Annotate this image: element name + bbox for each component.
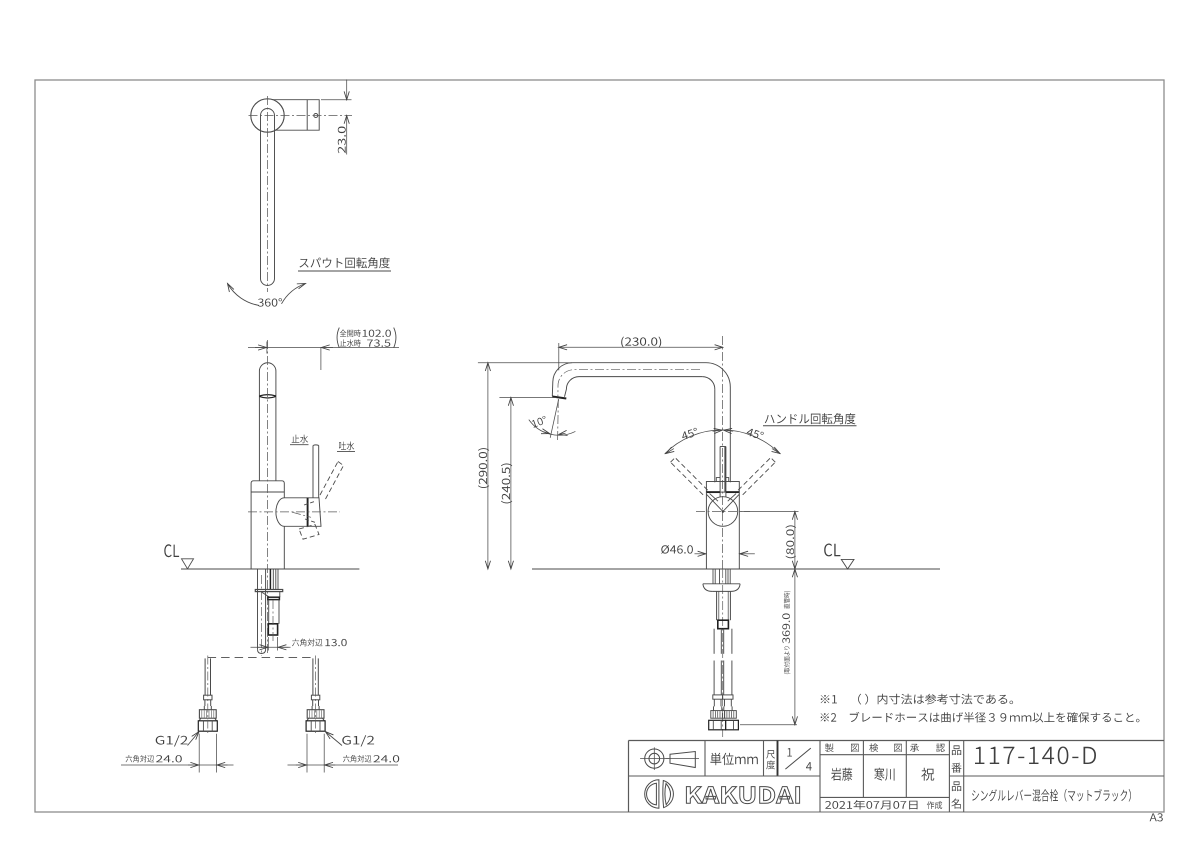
lever dashed right 2 bbox=[738, 458, 771, 491]
dim 290 line bbox=[487, 363, 489, 569]
front tube outer right bbox=[729, 591, 731, 620]
dim 240.5 text bbox=[501, 464, 512, 504]
front V line right bbox=[723, 494, 739, 511]
spout 360 rotation arc bbox=[228, 284, 260, 306]
dim hex24 right ext a bbox=[306, 734, 308, 773]
side collar seam bbox=[268, 597, 280, 599]
front rod flare right bbox=[726, 478, 729, 482]
front spout mouth bbox=[552, 397, 566, 399]
kakudai mark right bbox=[663, 781, 674, 808]
title scale 4 bbox=[806, 762, 812, 770]
top view horizontal centerline bbox=[249, 115, 353, 117]
dim 23.0 text bbox=[338, 127, 346, 154]
kakudai mark left bbox=[645, 780, 659, 808]
title block h 797.4 bbox=[820, 796, 949, 798]
projection symbol h crosshair bbox=[640, 758, 669, 760]
top view body circle bbox=[251, 99, 284, 132]
dim 369 text upper bbox=[784, 591, 791, 609]
front tube inner left bbox=[718, 591, 720, 620]
title block h 776 left bbox=[629, 775, 821, 777]
dim hex24 left arrow a bbox=[188, 764, 199, 766]
fan arrow far right bbox=[772, 449, 780, 454]
title name sangawa bbox=[874, 768, 894, 781]
side view lever rod left bbox=[312, 446, 314, 498]
title hinmei hin bbox=[952, 781, 961, 791]
title part number bbox=[975, 747, 1096, 765]
side flange bar bbox=[255, 590, 282, 592]
front hex left bbox=[709, 720, 726, 730]
front spout centerline bbox=[558, 370, 700, 397]
side view vertical centerline bbox=[267, 340, 269, 655]
dim 240.5 line bbox=[510, 398, 512, 570]
side shank lines bbox=[269, 569, 271, 590]
front nut bbox=[718, 620, 729, 629]
title date bbox=[825, 800, 917, 810]
hose route dashed line bbox=[208, 656, 315, 658]
dim 23.0 dimension line lower bbox=[346, 116, 348, 155]
dim 230 ext line bbox=[558, 343, 560, 370]
title name iwafuji bbox=[831, 768, 852, 781]
dim 80 line bbox=[794, 511, 796, 569]
title shonin bbox=[910, 744, 919, 752]
lever dashed left 1 bbox=[671, 462, 704, 495]
projection symbol cone axis bbox=[666, 758, 700, 760]
label 45 left bbox=[681, 427, 699, 440]
front body right line bbox=[738, 492, 740, 569]
title scale 1 bbox=[787, 748, 792, 756]
fan arrow center left bbox=[713, 430, 723, 431]
dim hex24 right text num bbox=[374, 755, 400, 762]
title block v 763.5 bbox=[763, 741, 765, 777]
side hose centerline bbox=[261, 575, 263, 656]
side view riser tube left bbox=[258, 371, 260, 481]
dim arrow right bbox=[321, 347, 333, 349]
side view lever rotated dashed 1 bbox=[320, 462, 338, 496]
label discharge underline bbox=[337, 451, 355, 453]
dim 80 text bbox=[786, 525, 796, 558]
side tube right bbox=[278, 600, 280, 624]
spout 360 rotation arc right bbox=[282, 284, 306, 304]
title seizu bbox=[825, 743, 834, 752]
label CL right bbox=[824, 544, 840, 557]
dim hex24 left line bbox=[121, 764, 234, 766]
dim 23.0 dimension line upper bbox=[346, 80, 348, 100]
side view collar bottom line bbox=[251, 491, 284, 493]
title kenzu2 bbox=[894, 744, 902, 752]
dim 230 text bbox=[621, 337, 661, 348]
title block v 963.7 bbox=[963, 741, 965, 813]
front cap rect bbox=[706, 482, 739, 493]
top view handle body rectangle bbox=[272, 100, 319, 131]
dim 10deg arrow left bbox=[543, 432, 550, 434]
dim 10deg arrow right bbox=[559, 433, 566, 434]
title seizu2 bbox=[851, 744, 859, 752]
dim hex13 ext left bbox=[267, 637, 269, 651]
side nut bbox=[268, 624, 277, 635]
front spout outer bend bbox=[706, 363, 730, 387]
dim 10deg text bbox=[531, 416, 547, 428]
dim 369 text lower bbox=[784, 646, 791, 674]
dim 369 ref line bbox=[740, 724, 797, 726]
side view lever rotated dashed 2 bbox=[326, 466, 344, 500]
top view spout tube bottom cap bbox=[261, 279, 275, 286]
dim extension line right bbox=[320, 348, 322, 371]
dim hex24 right arrow a bbox=[296, 764, 307, 766]
hose end fitting left bbox=[204, 658, 206, 695]
front spout tip outer bbox=[552, 363, 572, 397]
front spout bottom line bbox=[579, 376, 702, 378]
projection symbol outer circle bbox=[645, 749, 664, 768]
front hoses lower bbox=[713, 661, 715, 695]
front knurl right bbox=[725, 711, 737, 719]
front rod flare left bbox=[716, 478, 720, 482]
top view handle end cap line bbox=[306, 100, 308, 131]
front tube inner right bbox=[727, 591, 729, 620]
front tube outer left bbox=[716, 591, 718, 620]
front lever rod left bbox=[719, 447, 721, 498]
front spout tip inner bbox=[565, 377, 580, 397]
top view spout tube right line bbox=[274, 116, 276, 279]
title block top line bbox=[629, 740, 1165, 742]
lever dashed left 2 bbox=[675, 458, 708, 491]
front body left line bbox=[705, 492, 707, 569]
side view rotated cap dash a bbox=[304, 501, 316, 505]
front cap bottom thick bbox=[706, 491, 720, 493]
front shank lines bbox=[712, 569, 714, 584]
kakudai logotype bbox=[686, 787, 799, 804]
title hinban hin bbox=[952, 745, 961, 755]
dim big paren right bbox=[394, 328, 396, 348]
label discharge water bbox=[339, 442, 354, 451]
side view handle hub outline bbox=[276, 498, 321, 527]
top view vertical centerline bbox=[267, 96, 269, 292]
title block v 906.3 bbox=[905, 741, 907, 798]
front ball horizontal centerline bbox=[696, 511, 750, 513]
front riser left line bbox=[714, 389, 716, 482]
front hose necks bbox=[713, 699, 715, 706]
label G1/2 left bbox=[156, 735, 188, 746]
title product name bbox=[972, 789, 1131, 802]
side view riser top cap bbox=[259, 363, 276, 371]
sheet size A3 bbox=[1150, 813, 1163, 821]
front hose collars bbox=[713, 695, 723, 699]
dim hex24 right line bbox=[288, 764, 399, 766]
note 2 bbox=[821, 712, 1140, 723]
title block h 754.7 bbox=[820, 754, 949, 756]
title block v 705 bbox=[704, 741, 706, 777]
title scale slash bbox=[785, 748, 810, 769]
front flange bottom bbox=[712, 590, 731, 592]
title kenzu bbox=[869, 743, 878, 752]
title block h 776 right bbox=[949, 775, 1164, 777]
front chamfer left bbox=[710, 494, 718, 502]
side view body right lower bbox=[283, 526, 285, 569]
dim hex24 left ext a bbox=[198, 734, 200, 773]
dim hex13 text num bbox=[325, 639, 346, 646]
handle fan arc left bbox=[665, 430, 723, 454]
front spout inner bend bbox=[702, 377, 715, 390]
dim hex24 right text kanji bbox=[343, 755, 371, 762]
note 1 bbox=[821, 694, 1013, 705]
title date sakusei bbox=[927, 801, 942, 809]
fan arrow center right bbox=[724, 430, 734, 431]
title block v 863.4 bbox=[862, 741, 864, 798]
CL left triangle bbox=[182, 559, 194, 569]
front hex right bbox=[726, 720, 739, 730]
dim dia46 arrow left bbox=[695, 553, 706, 555]
side view lever rotated tip bbox=[338, 462, 344, 466]
projection symbol cone bbox=[670, 752, 695, 768]
dim arrow left bbox=[255, 347, 266, 349]
lever dashed left tip bbox=[671, 458, 676, 463]
side view body right upper bbox=[283, 492, 285, 498]
top view spout tube left line bbox=[260, 116, 262, 279]
front lever rod right bbox=[725, 447, 727, 498]
side view lever rod top bbox=[313, 444, 319, 447]
front lever rod inner bbox=[724, 447, 726, 492]
dim 10deg slanted line bbox=[550, 400, 558, 438]
title block v 777.5 bbox=[777, 741, 779, 777]
dim 10deg arc bbox=[529, 420, 576, 436]
side flange right edge bbox=[279, 592, 281, 598]
title block v 820 bbox=[819, 741, 821, 813]
side hose right line bbox=[265, 569, 267, 649]
dim hex13 arrow left bbox=[258, 646, 268, 648]
front flange right bbox=[731, 584, 740, 592]
counter line front view bbox=[532, 568, 940, 570]
title shonin2 bbox=[936, 744, 945, 752]
CL right triangle bbox=[841, 559, 854, 569]
title scale shaku bbox=[766, 750, 775, 758]
label 45 right bbox=[746, 427, 764, 440]
side view hub cap line bbox=[307, 498, 309, 527]
side view hub rotated dashed rect bbox=[299, 525, 319, 540]
front riser right line bbox=[729, 387, 731, 482]
dim 290 text bbox=[478, 448, 489, 488]
lever dashed right tip bbox=[771, 458, 776, 463]
handle fan arc right bbox=[722, 430, 780, 454]
label spout rotation angle bbox=[300, 257, 390, 268]
front lever rod top bbox=[720, 446, 726, 448]
dim hex13 text kanji bbox=[292, 639, 322, 647]
dim extension tick bbox=[266, 342, 268, 354]
G1/2 right leader bbox=[325, 732, 342, 746]
dim hex24 right ext b bbox=[323, 734, 325, 773]
dim spout height dimension line bbox=[248, 347, 399, 349]
front V line left bbox=[707, 494, 723, 511]
side tube left bbox=[268, 600, 270, 624]
title unit mm bbox=[710, 753, 757, 765]
front hoses upper bbox=[713, 629, 715, 654]
top view handle hole bbox=[314, 114, 318, 118]
side view hub horizontal centerline bbox=[248, 511, 340, 513]
dim text stop bbox=[340, 339, 361, 347]
side view collar bbox=[251, 481, 284, 492]
dim 369 text value bbox=[782, 613, 790, 643]
fan arrow far left bbox=[666, 449, 674, 454]
side hose left line bbox=[257, 569, 259, 649]
dim hex13 line bbox=[251, 646, 291, 648]
front hose steps bbox=[713, 706, 715, 710]
hose end fitting right bbox=[312, 658, 314, 695]
dim hex24 right arrow b bbox=[325, 764, 336, 766]
projection symbol v crosshair bbox=[653, 747, 655, 770]
front flange top bbox=[703, 583, 740, 585]
counter line side view bbox=[181, 568, 359, 570]
dim big paren left bbox=[337, 328, 339, 348]
side flange diagonal bbox=[262, 592, 270, 597]
side view spout seam bbox=[259, 395, 276, 398]
side tube centerline bbox=[272, 600, 274, 641]
label stop water underline bbox=[290, 444, 309, 446]
label handle rotation angle bbox=[765, 413, 856, 424]
title scale do bbox=[766, 761, 775, 770]
title hinban ban bbox=[951, 763, 961, 773]
label CL left bbox=[164, 544, 179, 557]
dim hex24 left ext b bbox=[215, 734, 217, 773]
label 360 degrees bbox=[258, 298, 282, 306]
side view riser tube right bbox=[275, 371, 277, 481]
front ball center dot bbox=[722, 510, 724, 512]
front flange left bbox=[703, 584, 712, 592]
dim hex13 ext right bbox=[277, 637, 279, 651]
dim 230 dimension line bbox=[559, 346, 723, 348]
dim 80 ext line bbox=[741, 511, 799, 513]
dim 290 ext line bbox=[478, 362, 572, 364]
front chamfer right bbox=[728, 494, 736, 502]
dim hex13 arrow right bbox=[278, 646, 288, 648]
dim hex24 left text num bbox=[156, 755, 182, 762]
dim 240.5 ext line bbox=[499, 397, 556, 399]
title hinmei mei bbox=[951, 799, 960, 809]
label spout rotation underline bbox=[298, 270, 391, 272]
dim 369 line bbox=[794, 569, 796, 725]
label stop water bbox=[292, 435, 308, 444]
title block left line bbox=[628, 741, 630, 813]
projection symbol inner circle bbox=[649, 753, 660, 764]
front riser centerline bbox=[722, 336, 724, 569]
front ball circle bbox=[708, 497, 738, 527]
label handle rotation underline bbox=[763, 425, 857, 427]
side view lever rod right bbox=[318, 446, 320, 498]
lever dashed right 1 bbox=[743, 462, 776, 495]
front spout top line bbox=[572, 362, 706, 364]
label G1/2 right bbox=[342, 735, 374, 746]
title block v 949.4 bbox=[948, 741, 950, 813]
dim dia46 text bbox=[661, 545, 693, 554]
dim hex24 left text kanji bbox=[126, 755, 154, 762]
G1/2 left leader bbox=[188, 732, 200, 746]
side view rotated cap dash b bbox=[305, 519, 317, 523]
side view rotated centerline bbox=[292, 512, 311, 517]
front knurl left bbox=[711, 711, 725, 719]
top view spout tube top arc bbox=[261, 109, 275, 116]
side view body left line bbox=[250, 492, 252, 569]
dim 23.0 extension line bbox=[321, 99, 352, 101]
dim 10deg vertical ref bbox=[557, 399, 560, 440]
dim dia46 arrow right bbox=[740, 553, 755, 555]
side hose U cap bbox=[258, 649, 266, 653]
dim text full open bbox=[340, 330, 361, 338]
front center dash below bbox=[722, 569, 724, 737]
title name shuku bbox=[921, 768, 934, 781]
dim hex24 left arrow b bbox=[217, 764, 228, 766]
